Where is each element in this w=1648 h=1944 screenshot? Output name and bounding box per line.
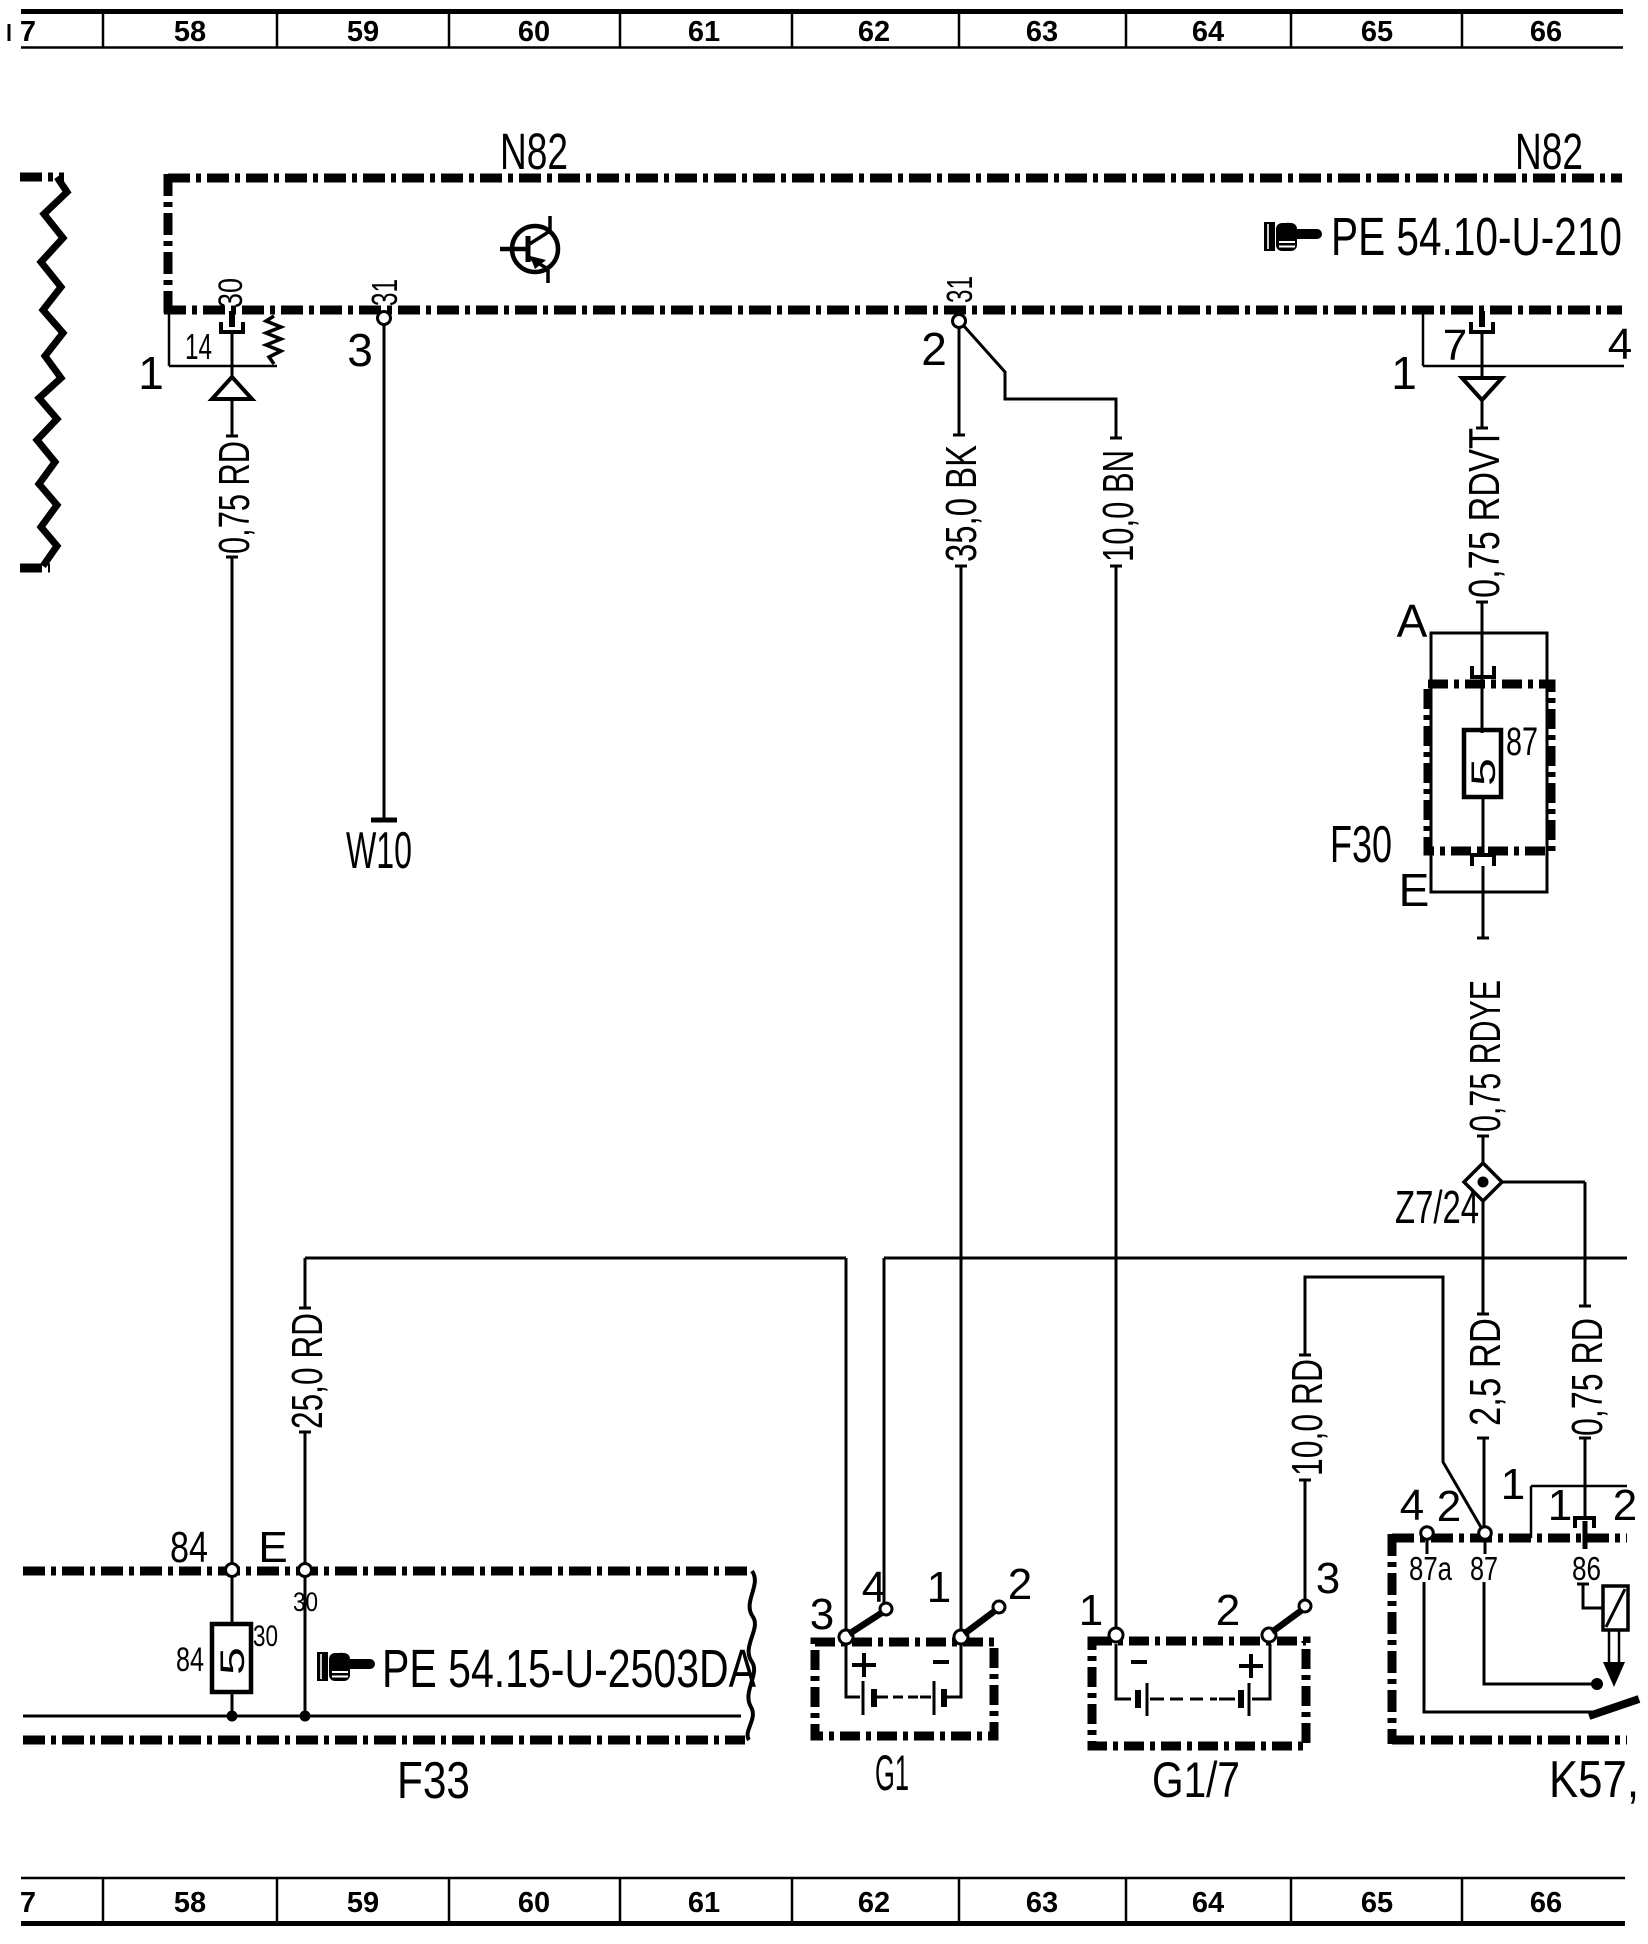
svg-text:30: 30 (212, 278, 250, 308)
diode (triangle, below box 14) (212, 377, 252, 399)
svg-text:4: 4 (862, 1563, 886, 1612)
resistor (inside box 14) (266, 316, 281, 364)
wire F30 to label break (1477, 866, 1489, 938)
svg-text:31: 31 (939, 276, 980, 303)
svg-text:87: 87 (1506, 720, 1538, 764)
svg-text:2: 2 (1008, 1560, 1032, 1609)
wire 0,75 RDYE lower to Z7/24 (1477, 1136, 1489, 1165)
fuse element F33 (value 5) (212, 1624, 252, 1692)
adjacent control unit torn-edge boundary (left) (20, 177, 67, 568)
svg-text:59: 59 (347, 16, 379, 48)
wire 25,0 RD lower segment to F33 terminal E (299, 1432, 311, 1563)
svg-text:N82: N82 (500, 123, 568, 180)
border frame: top ruler band (8, 24, 11, 41)
svg-text:PE 54.10-U-210: PE 54.10-U-210 (1331, 207, 1622, 267)
switch contact G1 pin 1 (954, 1601, 1005, 1644)
wire 10,0 BN lower segment to G1/7 pin 1 (1110, 566, 1122, 1631)
wire terminal 84 to fuse (231, 1577, 234, 1624)
wire fuse to junction (231, 1692, 234, 1716)
wire Z7/24 down branch (2,5 RD upper) (1477, 1201, 1489, 1314)
relay K57 boundary (dash-dot) (1392, 1534, 1627, 1744)
svg-text:1: 1 (1079, 1586, 1103, 1635)
svg-text:60: 60 (518, 1887, 550, 1919)
svg-text:4: 4 (1400, 1481, 1424, 1530)
connector bracket (F30 top) (1472, 666, 1494, 677)
battery G1 boundary (dash-dot) (815, 1642, 994, 1736)
wire 87 to coil node (1484, 1582, 1596, 1684)
fuse box F33 boundary (dash-dot, torn right edge) (23, 1571, 755, 1740)
svg-text:61: 61 (688, 1887, 720, 1919)
svg-text:0,75 RDYE: 0,75 RDYE (1461, 980, 1510, 1132)
svg-text:87a: 87a (1409, 1550, 1453, 1587)
svg-text:1: 1 (1501, 1460, 1525, 1509)
svg-text:E: E (1399, 864, 1430, 916)
svg-text:F30: F30 (1330, 816, 1392, 874)
svg-text:2: 2 (921, 323, 947, 375)
pin 30 connector of N82 (terminal 30) (221, 311, 243, 332)
wire 25,0 RD upper segment (299, 1258, 311, 1308)
control unit N82 boundary (dash-dot box) (164, 174, 1622, 314)
wire: main feed bus (right segment) (884, 1258, 1627, 1604)
terminal E (F33) (299, 1564, 312, 1577)
fuse F30 dash-dot boundary (1428, 684, 1551, 851)
svg-text:65: 65 (1361, 16, 1393, 48)
polarity - (G1) (933, 1660, 949, 1664)
svg-text:84: 84 (170, 1523, 208, 1572)
wire through F30 upper (1481, 666, 1484, 733)
svg-text:7: 7 (20, 1887, 36, 1919)
svg-text:58: 58 (174, 16, 206, 48)
svg-text:64: 64 (1192, 16, 1224, 48)
connector bracket pin 86 (1575, 1518, 1594, 1549)
relay coil K57 (rect with diagonal) (1603, 1586, 1628, 1630)
svg-text:2,5 RD: 2,5 RD (1461, 1318, 1510, 1426)
border frame: bottom ruler band (21, 1877, 1625, 1880)
svg-text:5: 5 (1465, 758, 1503, 786)
wire Z7/24 right branch (1502, 1182, 1591, 1306)
battery G1/7 internal cells (1116, 1644, 1270, 1716)
svg-text:G1: G1 (875, 1745, 909, 1801)
svg-text:10,0 RD: 10,0 RD (1283, 1359, 1332, 1476)
terminal 87 circle (1479, 1527, 1492, 1540)
svg-text:65: 65 (1361, 1887, 1393, 1919)
fuse element F30 (rect with value 5) (1464, 730, 1503, 797)
svg-text:0,75 RDVT: 0,75 RDVT (1460, 428, 1509, 598)
svg-text:0,75 RD: 0,75 RD (210, 441, 259, 554)
svg-text:1: 1 (1548, 1481, 1572, 1530)
wire 0,75 RDVT lower segment to F30 (1476, 602, 1488, 666)
pin box (right) outline (1423, 314, 1624, 366)
svg-text:3: 3 (1316, 1554, 1340, 1603)
connector bracket (F30 bottom) (1472, 855, 1494, 866)
svg-text:61: 61 (688, 16, 720, 48)
connector box on K57 (solid) (1531, 1486, 1627, 1538)
terminal G1/7 pin 1 (1109, 1628, 1123, 1642)
wire branch terminal 31 to 10,0 BN (963, 325, 1122, 438)
battery G1/7 boundary (dash-dot) (1092, 1641, 1306, 1746)
svg-text:7: 7 (20, 16, 36, 48)
diode (triangle down, pin 7) (1462, 378, 1502, 400)
svg-text:3: 3 (347, 324, 373, 376)
wire 35,0 BK lower segment to G1 pin 1 (955, 566, 967, 1631)
battery G1 internal cells (846, 1644, 961, 1715)
reference hand icon (bottom left) (317, 1652, 375, 1681)
svg-text:N82: N82 (1515, 123, 1583, 180)
connector sleeve Z7/24 (diamond with dot) (1464, 1163, 1502, 1201)
wire 10,0 RD (G1/7 pin 3 to K57 pin 87) (1299, 1277, 1482, 1529)
wire terminal 31 to ground W10 (383, 325, 386, 820)
terminal 84 (F33) (226, 1564, 239, 1577)
switch contact G1/7 pin 2 (1262, 1600, 1311, 1642)
junction dot (84 wire) (227, 1711, 238, 1722)
wire terminal E down (304, 1577, 307, 1716)
svg-text:84: 84 (176, 1641, 204, 1679)
svg-text:86: 86 (1572, 1550, 1601, 1587)
wire 87a to fixed contact (1424, 1582, 1594, 1712)
relay contact box 14 (outline) (169, 314, 277, 366)
svg-text:66: 66 (1530, 1887, 1562, 1919)
junction dot (coil / 87) (1591, 1678, 1603, 1690)
svg-text:64: 64 (1192, 1887, 1224, 1919)
svg-text:E: E (258, 1523, 287, 1572)
svg-text:G1/7: G1/7 (1152, 1752, 1240, 1808)
svg-text:2: 2 (1216, 1586, 1240, 1635)
svg-text:62: 62 (858, 1887, 890, 1919)
svg-text:66: 66 (1530, 16, 1562, 48)
wire pin30 to diode (231, 332, 234, 377)
svg-text:31: 31 (364, 279, 405, 306)
wire 86 to coil (1577, 1584, 1603, 1608)
svg-text:2: 2 (1613, 1481, 1637, 1530)
pin stub 87a (1426, 1539, 1429, 1554)
switch contact G1 pin 3 (839, 1603, 892, 1644)
wire through F30 lower (1482, 797, 1485, 853)
svg-text:A: A (1397, 595, 1428, 647)
relay switch lever (movable contact) (1589, 1699, 1639, 1716)
wire 35,0 BK upper segment (953, 328, 965, 435)
svg-text:10,0 BN: 10,0 BN (1094, 450, 1143, 562)
wire diode down to label break (226, 399, 238, 436)
svg-text:87: 87 (1470, 1550, 1498, 1587)
wire 0,75 RD down to fuse F33 terminal 84 (226, 557, 238, 1563)
svg-text:58: 58 (174, 1887, 206, 1919)
polarity - (G1/7) (1131, 1660, 1147, 1664)
svg-text:60: 60 (518, 16, 550, 48)
svg-text:1: 1 (927, 1563, 951, 1612)
terminal 87a circle (1421, 1527, 1434, 1540)
pin stub 87 (1484, 1539, 1487, 1554)
transistor (output stage symbol inside N82) (500, 216, 558, 283)
wire 10,0 RD lower segment (1299, 1480, 1311, 1601)
svg-text:35,0 BK: 35,0 BK (937, 445, 986, 562)
wire 0,75 RD lower to K57 pin 86 (1579, 1438, 1591, 1518)
fuse holder F30 outer box (solid) (1431, 633, 1547, 892)
svg-text:W10: W10 (346, 822, 412, 880)
svg-text:Z7/24: Z7/24 (1395, 1181, 1479, 1233)
terminal 31 (left) on N82 line (378, 312, 391, 325)
svg-text:63: 63 (1026, 1887, 1058, 1919)
svg-text:62: 62 (858, 16, 890, 48)
svg-text:0,75 RD: 0,75 RD (1563, 1318, 1612, 1436)
wire diode down (0,75 RDVT upper) (1476, 400, 1488, 428)
wire: main feed bus (left segment, 25,0 RD to G1 pin 3) (305, 1258, 846, 1631)
svg-text:30: 30 (253, 1620, 278, 1653)
junction dot (E wire) (300, 1711, 311, 1722)
reference hand icon (top right) (1264, 222, 1322, 251)
svg-text:K57,: K57, (1549, 1751, 1639, 1809)
svg-text:5: 5 (214, 1647, 252, 1675)
wire 2,5 RD lower to K57 pin 87 (1477, 1438, 1489, 1527)
svg-text:4: 4 (1608, 320, 1632, 369)
svg-text:25,0 RD: 25,0 RD (283, 1313, 332, 1429)
svg-text:14: 14 (185, 326, 212, 367)
svg-text:63: 63 (1026, 16, 1058, 48)
svg-text:1: 1 (1391, 347, 1417, 399)
svg-text:2: 2 (1437, 1482, 1461, 1531)
svg-text:7: 7 (1443, 321, 1467, 370)
coil actuator arrow (1603, 1630, 1625, 1687)
svg-text:59: 59 (347, 1887, 379, 1919)
pin 7 connector of N82 (1471, 311, 1493, 332)
wire: feed rail inside F33 (23, 1715, 741, 1718)
svg-text:1: 1 (138, 347, 164, 399)
svg-text:3: 3 (810, 1590, 834, 1639)
polarity + (G1/7) (1239, 1654, 1263, 1678)
polarity + (G1) (852, 1653, 876, 1677)
svg-text:F33: F33 (397, 1752, 470, 1810)
terminal 31 (middle) on N82 line (953, 315, 966, 328)
svg-text:PE 54.15-U-2503DA: PE 54.15-U-2503DA (382, 1639, 756, 1699)
wire pin7 to diode (1481, 332, 1484, 378)
ground W10 (346, 820, 412, 880)
